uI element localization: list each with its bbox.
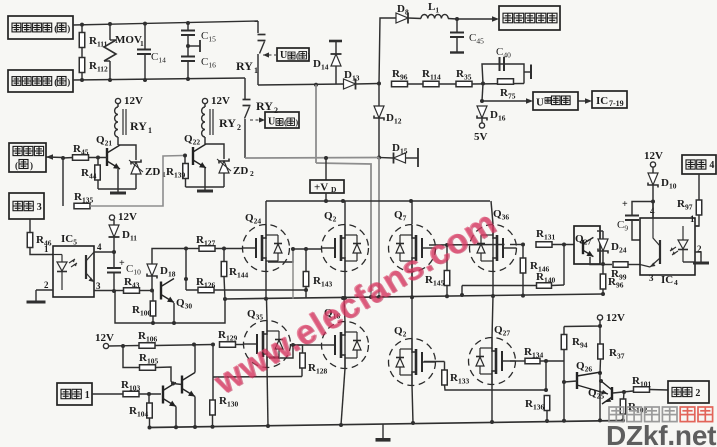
svg-text:RY: RY <box>236 59 253 73</box>
svg-text:+: + <box>622 199 628 210</box>
varistor MOV1 <box>109 24 111 40</box>
wire <box>223 173 225 187</box>
junction <box>211 343 215 347</box>
wire Q3 source <box>412 386 413 424</box>
svg-text:5V: 5V <box>474 131 488 143</box>
box 继电器(合) <box>9 143 46 172</box>
svg-text:RY: RY <box>219 116 236 130</box>
wire to Q24 gate <box>215 248 243 250</box>
junction <box>121 344 125 348</box>
wire <box>356 83 380 86</box>
wire R96b top <box>602 265 604 275</box>
resistor R143 <box>303 272 309 287</box>
wire RY2 output bus <box>245 157 379 160</box>
wire <box>456 37 458 52</box>
wire <box>97 180 99 189</box>
wire <box>335 66 337 84</box>
svg-text:RY: RY <box>130 119 147 133</box>
wire <box>599 359 602 373</box>
wire <box>117 104 119 108</box>
IC5 light arrows <box>69 259 77 267</box>
resistor R128 <box>300 353 306 368</box>
IC5 LED <box>61 255 63 263</box>
capacitor C45 <box>450 32 464 34</box>
svg-text:): ) <box>67 77 70 87</box>
wire <box>540 360 564 362</box>
wire <box>113 220 115 226</box>
resistor R133 <box>442 370 448 385</box>
wire R126 line <box>186 289 306 291</box>
wire <box>152 316 154 323</box>
wire +VD <box>325 158 327 180</box>
wire Q27 gate <box>510 360 525 362</box>
capacitor C16 <box>181 56 195 58</box>
transistor Q26 <box>576 372 578 389</box>
wire to 驱动2 <box>650 389 669 392</box>
wire <box>212 377 214 400</box>
wire <box>81 48 83 59</box>
junction <box>562 380 566 384</box>
resistor R102 <box>620 399 626 414</box>
junction <box>222 247 226 251</box>
junction <box>562 243 566 247</box>
diode D11 <box>109 225 119 237</box>
wire Q7 gate row <box>429 244 505 247</box>
wire <box>144 54 146 80</box>
wire <box>325 193 327 201</box>
svg-text:IC: IC <box>661 274 673 286</box>
wire coil to Q22 <box>204 137 206 144</box>
junction <box>377 295 381 299</box>
junction <box>61 156 65 160</box>
diode D12 <box>374 106 384 118</box>
transistor Q22 <box>193 144 206 168</box>
arrow into 继电器 box <box>46 156 63 159</box>
terminal 12V RY2 <box>202 98 207 103</box>
stub <box>188 45 200 47</box>
wire <box>81 25 83 33</box>
optocoupler IC5 <box>53 246 94 297</box>
wire R136 top <box>545 361 547 390</box>
C45 end bar <box>450 51 464 53</box>
capacitor C15 <box>181 30 195 32</box>
wire base <box>140 290 153 292</box>
transistor Q32 <box>182 373 195 397</box>
resistor R101 <box>634 387 650 393</box>
MOSFET Q16 <box>322 322 369 369</box>
box 驱动1 <box>57 383 92 405</box>
wire <box>652 167 654 173</box>
wire <box>446 286 448 297</box>
relay coil RY2 <box>202 107 205 137</box>
resistor R134 <box>525 358 540 364</box>
MOSFET Q27 <box>469 338 516 385</box>
junction <box>521 243 525 247</box>
wire R133 to R136 <box>445 385 547 390</box>
wire to R105 <box>123 346 140 368</box>
svg-text:+V: +V <box>314 182 328 194</box>
wire Q7 source to gates <box>411 272 413 297</box>
wire <box>113 237 115 252</box>
wire <box>522 273 524 296</box>
transistor Q21 <box>107 145 120 169</box>
wire Q27a emitter <box>590 257 612 265</box>
wire Q3 gate chain <box>424 361 445 363</box>
wire <box>120 290 123 292</box>
arrow into charger box <box>457 18 492 20</box>
junction <box>291 343 295 347</box>
wire Q36 drain <box>491 201 493 224</box>
wire <box>109 345 140 348</box>
terminal 12V D11 <box>109 215 114 220</box>
wire Q24 drain <box>265 201 267 225</box>
wire <box>187 61 189 79</box>
wire to IC4 pin3 <box>628 264 640 266</box>
diode D10 <box>648 173 658 185</box>
wire Q16 drain <box>344 298 345 322</box>
wire <box>117 169 119 189</box>
wire <box>113 273 115 292</box>
wire <box>81 73 83 81</box>
resistor R140 <box>537 283 552 289</box>
zener ZD2 <box>219 161 229 173</box>
ground main <box>382 424 384 440</box>
arrow to U蓄测检 <box>482 100 526 102</box>
resistor R146 <box>520 258 526 273</box>
wire <box>29 219 31 233</box>
wire <box>552 284 565 287</box>
ground Q21 <box>117 189 119 193</box>
svg-text:1: 1 <box>140 39 144 48</box>
terminal 5V <box>479 123 484 128</box>
wire <box>302 345 304 353</box>
wire pin2 gnd <box>695 252 701 258</box>
junction <box>183 154 187 158</box>
junction <box>377 82 381 86</box>
junction <box>96 156 100 160</box>
junction <box>481 82 485 86</box>
junction <box>192 343 196 347</box>
wire <box>599 373 601 420</box>
diode D14 <box>331 54 341 66</box>
wire bus from battery <box>315 85 317 163</box>
svg-text:12V: 12V <box>118 211 137 223</box>
svg-text:D: D <box>331 185 337 194</box>
wire <box>293 344 303 346</box>
MOSFET Q2 <box>322 225 369 272</box>
wire C45 stem <box>456 19 458 32</box>
wire Q16 source <box>341 369 345 426</box>
terminal 12V IC4 <box>650 162 655 167</box>
wire <box>563 245 565 286</box>
svg-text:2: 2 <box>695 388 700 399</box>
wire <box>135 174 137 189</box>
resistor R97 <box>696 200 702 215</box>
wire R100 top <box>152 291 154 302</box>
resistor R130 <box>210 400 216 415</box>
resistor R44 <box>95 165 101 180</box>
svg-text:2: 2 <box>274 106 278 115</box>
wire coil to Q21 <box>117 137 119 145</box>
terminal 12V drv2 <box>597 315 602 320</box>
wire Q36 source <box>492 272 494 296</box>
IC5 phototransistor <box>85 255 87 279</box>
box IC7-19 <box>592 91 627 108</box>
wire emitter gnd Q22 <box>186 186 225 188</box>
wire pulldown row <box>213 376 302 379</box>
dashed control link RY1 <box>263 54 276 56</box>
wire R37 top <box>599 326 601 344</box>
svg-text:U: U <box>536 97 544 109</box>
wire to D15 <box>379 157 393 160</box>
wire Q30 emitter <box>173 303 175 323</box>
wire AC live <box>73 21 258 25</box>
capacitor C10 electrolytic <box>113 252 115 268</box>
wire <box>623 392 626 399</box>
wire pin3 <box>94 290 120 292</box>
wire Q2 drain <box>344 201 346 225</box>
svg-text:4: 4 <box>97 242 102 252</box>
IC4 LED <box>682 226 684 240</box>
wire Q25 base out <box>613 391 633 393</box>
svg-text:12V: 12V <box>124 95 143 107</box>
resistor R135 <box>74 203 90 209</box>
box +VD <box>310 180 344 193</box>
capacitor C9 <box>632 202 653 216</box>
wire Q35 source to Q16 gate <box>269 345 322 358</box>
svg-text:U: U <box>268 117 275 128</box>
junction <box>147 392 151 396</box>
wire <box>597 230 603 232</box>
wire R130 branch <box>212 345 214 378</box>
wire <box>481 118 483 123</box>
resistor R100 <box>150 301 156 316</box>
wire to R135 <box>62 158 64 206</box>
junction <box>184 247 188 251</box>
diode D8 <box>396 13 408 23</box>
wire <box>546 411 548 422</box>
wire <box>144 24 146 49</box>
resistor R46 <box>27 233 33 248</box>
wire <box>563 350 565 421</box>
wire Q24 source <box>265 272 267 299</box>
resistor R103 <box>123 391 139 397</box>
box 充电器电路 <box>499 6 560 30</box>
resistor R111 <box>79 33 85 48</box>
wire 12V feed <box>564 320 600 327</box>
wire <box>406 157 419 159</box>
wire Q7 source <box>411 272 413 297</box>
resistor R112 <box>79 58 85 73</box>
svg-text:DZkf.net: DZkf.net <box>606 420 716 447</box>
capacitor C40 <box>499 57 501 71</box>
svg-text:2: 2 <box>250 169 254 178</box>
wire <box>335 41 337 54</box>
capacitor C9 <box>625 215 639 217</box>
wire <box>408 83 425 85</box>
wire Q27 drain <box>492 296 493 338</box>
wire AC neutral <box>73 78 245 80</box>
resistor R99 <box>613 262 628 268</box>
wire to Q35 gate <box>236 344 244 346</box>
box 驱动2 <box>668 381 709 403</box>
C40/R75 parallel loop <box>482 64 524 84</box>
MOSFET Q24 <box>243 225 290 272</box>
wire <box>148 394 150 403</box>
relay contact RY1 <box>258 34 266 36</box>
zener ZD1 <box>131 162 141 174</box>
junction <box>455 17 459 21</box>
wire <box>378 118 380 158</box>
svg-text:): ) <box>308 52 311 61</box>
MOSFET Q35 <box>244 321 291 368</box>
wire bus D12 <box>378 84 380 107</box>
box U检(零) <box>265 112 299 128</box>
svg-text:3: 3 <box>96 281 101 291</box>
wire R143 top <box>305 249 307 272</box>
wire R140 row <box>462 285 536 287</box>
svg-text:1: 1 <box>85 390 90 401</box>
svg-text:IC: IC <box>596 95 608 107</box>
terminal 12V RY1 <box>115 98 120 103</box>
svg-text:): ) <box>67 24 70 34</box>
svg-text:(: ( <box>15 161 18 171</box>
svg-text:3: 3 <box>649 273 654 283</box>
wire <box>204 104 206 108</box>
wire to ZD1 <box>118 145 136 160</box>
wire RY2 contact bottom <box>244 119 246 158</box>
resistor R131 <box>536 242 552 248</box>
wire <box>408 17 421 20</box>
wire to ZD2 <box>205 144 224 159</box>
svg-text:): ) <box>296 118 299 127</box>
junction <box>171 382 175 386</box>
transistor Q25 <box>611 387 613 400</box>
resistor R106 <box>139 343 155 349</box>
junction <box>314 83 318 87</box>
wire emitter gnd <box>98 188 136 190</box>
junction <box>651 200 655 204</box>
capacitor C14 <box>137 49 151 51</box>
svg-text:3: 3 <box>37 202 42 213</box>
junction <box>601 262 605 266</box>
relay contact RY2 <box>243 99 251 101</box>
ground Q22 <box>204 187 206 191</box>
wire R145 top <box>446 245 448 271</box>
wire to charger <box>379 18 396 84</box>
wire jog down <box>316 163 371 297</box>
svg-text:4: 4 <box>674 278 678 287</box>
junction <box>445 243 449 247</box>
wire <box>461 286 463 296</box>
junction <box>377 156 381 160</box>
wire Q27 source <box>491 384 493 422</box>
resistor R127 <box>199 246 215 252</box>
resistor R105 <box>140 365 156 371</box>
wire Q24 source to Q2 gate <box>268 249 322 262</box>
wire <box>185 179 187 188</box>
wire Q2 source <box>344 272 346 299</box>
wire bus <box>378 158 380 298</box>
svg-text:ZD: ZD <box>145 166 160 178</box>
wire <box>149 418 151 428</box>
IC4 phototransistor <box>659 240 661 264</box>
wire C9 bottom <box>632 220 640 240</box>
capacitor C10 <box>107 267 121 269</box>
wire T1-T2 <box>173 384 182 385</box>
wire relay output to battery <box>258 84 344 85</box>
resistor R96 <box>392 81 408 87</box>
wire R135 to Q22 base <box>90 156 183 207</box>
svg-text:12V: 12V <box>644 150 663 162</box>
junction <box>480 99 484 103</box>
wire <box>224 277 225 300</box>
svg-text:12V: 12V <box>95 332 114 344</box>
terminal bar D15 <box>417 148 419 167</box>
junction <box>369 295 373 299</box>
watermark 电子开发社区 <box>609 407 713 422</box>
wire <box>444 362 446 371</box>
resistor R139 <box>183 164 189 179</box>
wire R105 to T1 collector <box>156 367 174 384</box>
resistor R104 <box>147 403 153 418</box>
resistor R144 <box>221 262 227 277</box>
junction <box>598 324 602 328</box>
wire <box>223 249 225 262</box>
control link RY2 <box>250 119 263 121</box>
wire RY2 contact top <box>244 78 246 99</box>
box U蓄测检 <box>533 92 578 110</box>
wire <box>139 393 161 395</box>
box Q27 driver <box>574 226 600 264</box>
svg-text:1: 1 <box>44 244 49 254</box>
resistor R145 <box>444 271 450 286</box>
box 驱动4 <box>682 155 716 174</box>
wire <box>184 156 186 164</box>
resistor R126 <box>198 287 214 293</box>
wire Q35 source <box>267 368 268 427</box>
input box 市电输入(零) <box>8 70 73 92</box>
svg-text:+: + <box>119 258 125 269</box>
wire <box>602 289 604 294</box>
wire mid rail <box>224 294 603 299</box>
diode D15 <box>394 153 406 163</box>
MOSFET Q7 <box>389 225 436 272</box>
resistor R37 <box>598 344 604 359</box>
wire R106 out <box>155 345 213 346</box>
stub bar <box>199 40 201 52</box>
resistor R129 <box>220 342 236 348</box>
wire T2 emitter <box>194 397 196 428</box>
wire R97 to IC4 pin1 <box>695 215 699 226</box>
optocoupler IC4 <box>640 218 695 275</box>
svg-text:1: 1 <box>148 126 152 135</box>
junction <box>324 156 328 160</box>
input box 市电输入(火) <box>8 16 73 39</box>
terminal 12V drv1 <box>103 343 108 348</box>
svg-text:(: ( <box>296 52 299 61</box>
junction <box>112 289 116 293</box>
svg-text:2: 2 <box>237 123 241 132</box>
wire to IC5 pin1 <box>30 248 53 255</box>
resistor R96 <box>600 274 606 289</box>
wire <box>187 35 189 57</box>
box U检(火) <box>277 48 309 61</box>
svg-text:12V: 12V <box>606 312 625 324</box>
junction <box>544 388 548 392</box>
wire <box>301 368 303 377</box>
ground IC4 <box>700 258 702 263</box>
